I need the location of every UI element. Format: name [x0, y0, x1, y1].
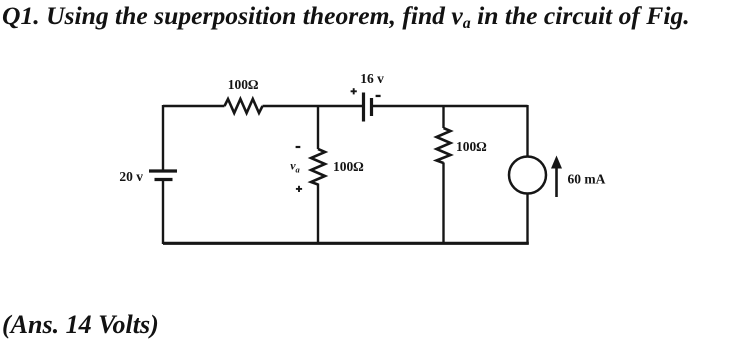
label V1 value 20v: [119, 169, 143, 184]
wire left vertical lower: [162, 181, 164, 244]
resistor R3 100ohm vertical: [437, 128, 451, 163]
wire top-left segment: [163, 105, 225, 107]
svg-text:100Ω: 100Ω: [456, 139, 487, 154]
label R1 value 100ohm: [228, 77, 259, 92]
wire bottom: [163, 242, 529, 245]
wire right-resistor branch upper: [442, 105, 444, 128]
svg-text:60 mA: 60 mA: [568, 172, 606, 187]
resistor R1 100ohm horizontal: [225, 99, 263, 113]
wire middle branch lower: [317, 184, 319, 245]
label R3 value 100ohm: [456, 139, 487, 154]
node va label: [290, 159, 300, 175]
label V2 minus: [376, 95, 381, 97]
battery V1 20v plates: [149, 171, 177, 180]
svg-text:20 v: 20 v: [119, 169, 143, 184]
label node va plus: [296, 186, 302, 192]
label R2 value 100ohm: [333, 159, 364, 174]
resistor R2 100ohm vertical: [311, 149, 325, 185]
svg-text:100Ω: 100Ω: [228, 77, 259, 92]
battery V2 16v plates: [364, 93, 372, 122]
svg-text:16 v: 16 v: [360, 71, 384, 86]
svg-text:100Ω: 100Ω: [333, 159, 364, 174]
current source I1 circle: [509, 157, 546, 194]
wire right edge lower: [526, 194, 528, 245]
label V2 value 16v: [360, 71, 384, 86]
label V2 plus: [351, 88, 357, 94]
wire top-right segment: [373, 105, 528, 107]
wire top-middle segment: [263, 105, 363, 107]
svg-text:va: va: [290, 159, 300, 175]
wire left vertical upper: [162, 105, 164, 170]
label node va minus: [296, 146, 301, 148]
wire middle branch upper: [317, 105, 319, 149]
current source I1 arrow: [551, 156, 562, 198]
label I1 value 60 mA: [568, 172, 606, 187]
wire right-resistor branch lower: [442, 163, 444, 245]
wire right edge upper: [526, 105, 528, 157]
